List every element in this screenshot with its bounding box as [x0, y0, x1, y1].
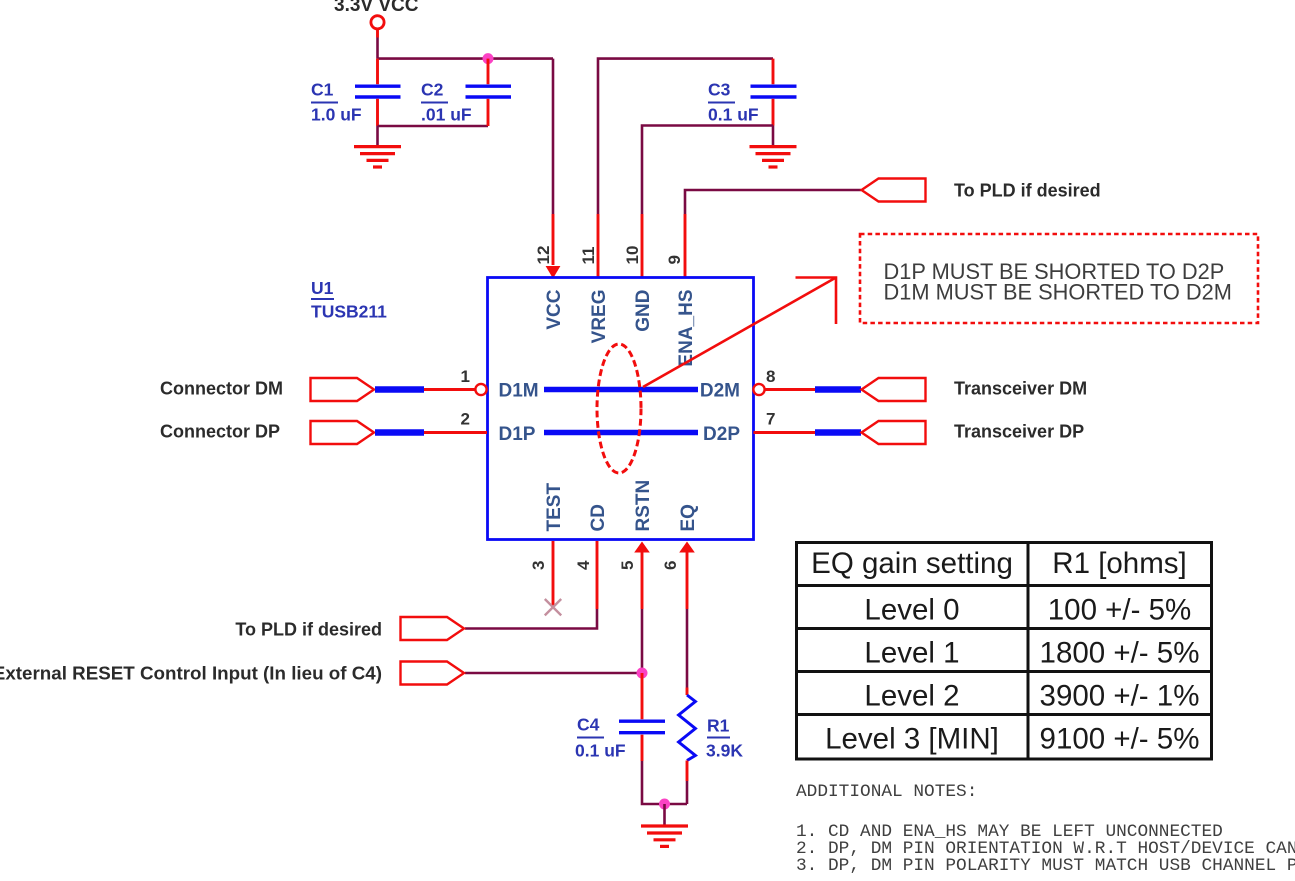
- wire C3 bottom stub: [772, 99, 775, 126]
- wire C1-C2 bottom joining: [378, 125, 489, 128]
- wire ground stem: [663, 804, 666, 825]
- net bar D1P-D2P: [544, 430, 698, 436]
- svg-text:7: 7: [766, 410, 775, 429]
- wire C1 to ground: [376, 126, 379, 146]
- junction node pin5: [637, 668, 648, 679]
- svg-text:8: 8: [766, 367, 775, 386]
- wire ENA_HS pin9 up and over: [685, 190, 861, 214]
- capacitor C4: [619, 720, 665, 723]
- junction node ground rail: [659, 799, 670, 810]
- svg-text:1.0 uF: 1.0 uF: [311, 105, 362, 125]
- table EQ gain settings: [797, 543, 1212, 760]
- wire VCC vertical from terminal: [376, 29, 379, 38]
- ground bottom: [641, 826, 688, 846]
- net segment blue DP right: [815, 429, 861, 436]
- svg-text:D1M: D1M: [499, 381, 539, 402]
- resistor R1 zigzag: [679, 695, 696, 761]
- annotation leader arms: [796, 278, 837, 325]
- svg-text:11: 11: [579, 247, 598, 265]
- svg-text:D1M MUST BE SHORTED TO D2M: D1M MUST BE SHORTED TO D2M: [884, 280, 1232, 305]
- net segment blue DM left: [375, 386, 424, 393]
- red R1 top stub: [686, 688, 689, 696]
- wire VCC horizontal to pin12: [378, 57, 554, 60]
- connector To PLD (top right): [862, 179, 926, 202]
- ground below C1: [354, 147, 401, 167]
- connector arrow Transceiver DP: [862, 421, 926, 444]
- wire pin7: [754, 431, 816, 434]
- svg-text:ENA_HS: ENA_HS: [676, 290, 697, 367]
- wire C3 top stub: [772, 59, 775, 85]
- svg-text:C2: C2: [421, 80, 444, 100]
- red pin stub 12 with arrow: [552, 214, 555, 265]
- connector arrow Transceiver DM: [862, 378, 926, 401]
- wire C2 bottom stub: [487, 99, 490, 126]
- svg-text:3.9K: 3.9K: [706, 741, 743, 761]
- net segment blue DP left: [375, 429, 424, 436]
- svg-text:2: 2: [461, 410, 470, 429]
- svg-text:External RESET Control Input (: External RESET Control Input (In lieu of…: [0, 663, 382, 684]
- net bar D1M-D2M: [544, 387, 698, 393]
- svg-text:VCC: VCC: [544, 289, 565, 329]
- svg-text:Level 3 [MIN]: Level 3 [MIN]: [825, 723, 999, 756]
- svg-text:9: 9: [665, 255, 684, 264]
- wire C2 top stub: [487, 59, 490, 85]
- svg-text:5: 5: [618, 561, 637, 570]
- capacitor C2: [466, 84, 512, 87]
- wire pin8: [765, 388, 816, 391]
- wire pin1: [424, 388, 476, 391]
- wire C3 to ground: [772, 126, 775, 147]
- svg-text:D2P: D2P: [703, 424, 740, 445]
- svg-text:0.1 uF: 0.1 uF: [575, 741, 626, 761]
- svg-text:3900 +/- 1%: 3900 +/- 1%: [1040, 680, 1200, 713]
- svg-text:1: 1: [461, 367, 470, 386]
- net segment blue DM right: [815, 386, 861, 393]
- svg-text:D1P: D1P: [499, 424, 536, 445]
- ground below C3: [750, 147, 797, 167]
- red R1 bottom stub: [686, 761, 689, 782]
- wire R1 down to ground rail: [686, 781, 689, 804]
- wire C1 top stub: [376, 59, 379, 85]
- svg-text:R1 [ohms]: R1 [ohms]: [1052, 547, 1186, 580]
- note box dashed: [860, 234, 1258, 323]
- red pin stub 4: [596, 541, 599, 609]
- capacitor C3: [751, 84, 797, 87]
- red pin stub 11: [597, 214, 600, 277]
- wire VCC down to pin 12: [552, 59, 555, 214]
- svg-text:C4: C4: [577, 715, 600, 735]
- wire pin2: [424, 431, 487, 434]
- svg-text:Level 2: Level 2: [864, 680, 959, 713]
- svg-text:3: 3: [529, 561, 548, 570]
- connector arrow DM (left): [311, 378, 375, 401]
- svg-text:Connector DM: Connector DM: [160, 379, 283, 399]
- capacitor C1: [355, 84, 401, 87]
- pin8 open circle: [753, 384, 764, 395]
- svg-text:VREG: VREG: [589, 290, 610, 344]
- svg-text:EQ gain setting: EQ gain setting: [811, 547, 1013, 580]
- no-connect X pin3: [545, 599, 561, 615]
- op IC U1 box: [488, 278, 754, 540]
- svg-text:Level 0: Level 0: [864, 594, 959, 627]
- svg-text:EQ: EQ: [678, 504, 699, 531]
- svg-text:3. DP, DM PIN POLARITY MUST MA: 3. DP, DM PIN POLARITY MUST MATCH USB CH…: [796, 856, 1295, 876]
- VCC open terminal circle: [371, 16, 384, 29]
- svg-text:3.3V VCC: 3.3V VCC: [334, 0, 419, 16]
- svg-text:10: 10: [623, 246, 642, 265]
- svg-text:ADDITIONAL NOTES:: ADDITIONAL NOTES:: [796, 782, 977, 802]
- svg-text:6: 6: [661, 561, 680, 570]
- svg-text:9100 +/- 5%: 9100 +/- 5%: [1040, 723, 1200, 756]
- svg-text:4: 4: [574, 560, 593, 570]
- svg-text:To PLD if desired: To PLD if desired: [954, 181, 1101, 201]
- svg-text:0.1 uF: 0.1 uF: [708, 105, 759, 125]
- red pin stub 3: [552, 541, 555, 608]
- connector arrow To PLD (bottom): [401, 617, 465, 640]
- wire GND pin10 up and over to C3: [642, 126, 773, 215]
- svg-text:100 +/- 5%: 100 +/- 5%: [1048, 594, 1192, 627]
- svg-text:CD: CD: [588, 504, 609, 531]
- connector arrow External RESET: [401, 662, 465, 685]
- svg-text:R1: R1: [707, 716, 730, 736]
- junction node VCC/C2: [483, 53, 494, 64]
- svg-text:GND: GND: [633, 290, 654, 332]
- svg-text:TEST: TEST: [544, 483, 565, 532]
- wire C4 top stub: [641, 673, 644, 719]
- svg-text:Transceiver DM: Transceiver DM: [954, 379, 1087, 399]
- wire VREG pin11 up and over: [598, 59, 773, 214]
- svg-text:RSTN: RSTN: [633, 480, 654, 532]
- red pin stub 5 with arrow: [634, 542, 650, 553]
- pin1 open circle: [475, 384, 486, 395]
- svg-text:1800 +/- 5%: 1800 +/- 5%: [1040, 637, 1200, 670]
- wire C4 down to ground rail: [642, 761, 687, 804]
- wire pin6 down: [686, 609, 689, 688]
- wire external reset: [465, 672, 642, 675]
- wire pin4 down and left: [465, 609, 597, 629]
- wire C4 bottom stub: [641, 735, 644, 761]
- svg-text:D2M: D2M: [700, 381, 740, 402]
- wire C1 bottom stub: [376, 99, 379, 126]
- wire pin5 down to junction: [641, 609, 644, 673]
- svg-text:12: 12: [534, 246, 553, 265]
- annotation leader diagonal: [643, 278, 836, 388]
- red pin stub 9: [684, 214, 687, 277]
- red pin stub 10: [641, 214, 644, 277]
- svg-text:Level 1: Level 1: [864, 637, 959, 670]
- svg-text:C1: C1: [311, 80, 334, 100]
- svg-text:C3: C3: [708, 80, 731, 100]
- svg-text:Connector DP: Connector DP: [160, 422, 280, 442]
- svg-text:.01 uF: .01 uF: [421, 105, 472, 125]
- red pin stub 6 with arrow: [679, 542, 695, 553]
- connector arrow DP (left): [311, 421, 375, 444]
- svg-text:U1: U1: [311, 278, 334, 298]
- svg-text:Transceiver DP: Transceiver DP: [954, 422, 1084, 442]
- dashed ellipse annotation: [597, 344, 641, 473]
- svg-text:To PLD if desired: To PLD if desired: [235, 620, 382, 640]
- svg-text:TUSB211: TUSB211: [311, 302, 387, 322]
